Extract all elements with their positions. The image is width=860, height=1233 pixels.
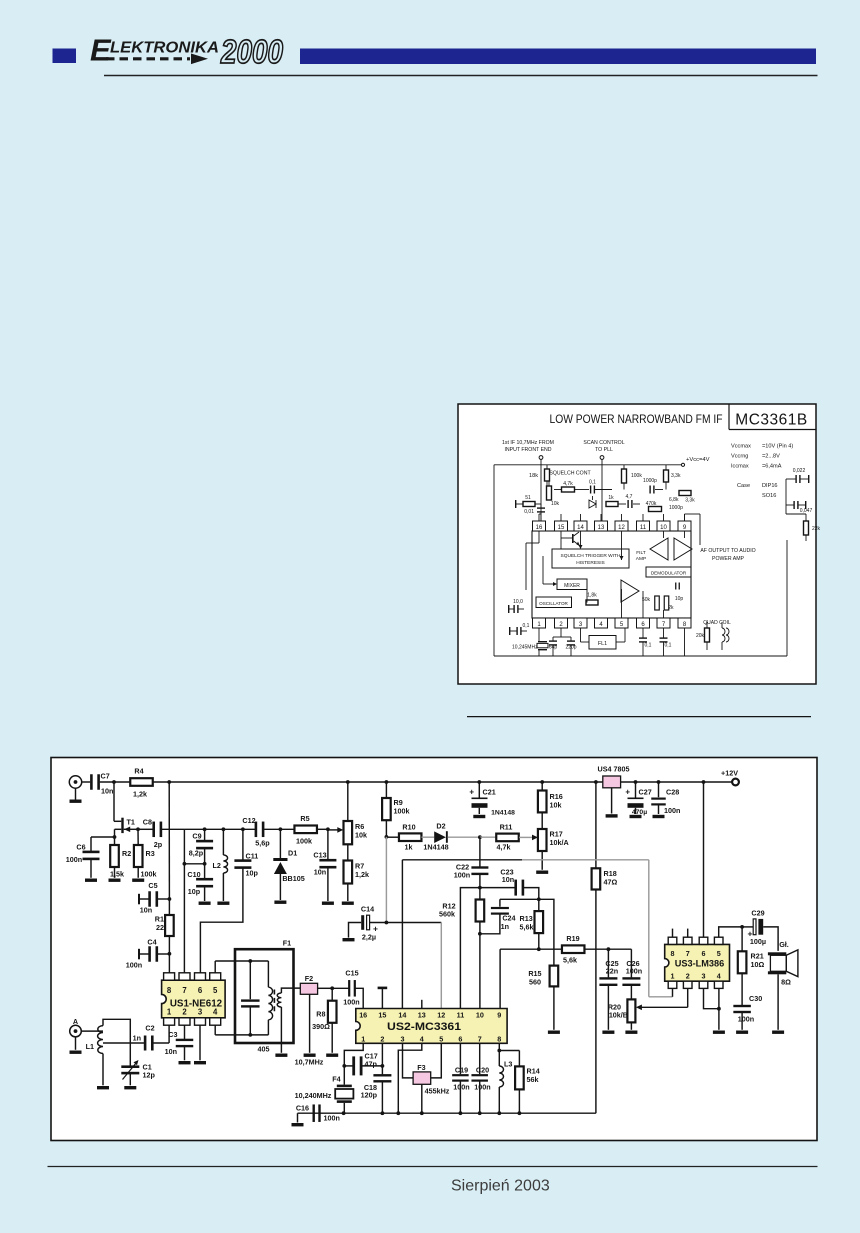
- svg-text:C6: C6: [76, 843, 85, 852]
- squelch input transistor: [561, 537, 572, 539]
- svg-text:5: 5: [213, 986, 218, 995]
- input wire down to pin16: [540, 459, 542, 521]
- IC US3-LM386: [665, 944, 730, 981]
- header rule: [104, 75, 818, 77]
- resistor 3,3k: [664, 470, 669, 482]
- US1 pin boxes bottom: [164, 1018, 175, 1025]
- svg-text:C10: C10: [187, 870, 200, 879]
- svg-text:+: +: [469, 788, 474, 797]
- svg-text:2: 2: [686, 972, 690, 981]
- ground of D1: [274, 901, 286, 904]
- bottom common rail: [298, 1112, 596, 1114]
- ground of C1: [124, 1086, 136, 1089]
- svg-text:C14: C14: [361, 905, 374, 914]
- US2 pin4 ground jog: [398, 1043, 422, 1113]
- wire R16 to R17: [541, 812, 543, 829]
- svg-text:6: 6: [458, 1034, 462, 1043]
- header left navy block: [53, 49, 77, 64]
- svg-text:10,240MHz: 10,240MHz: [295, 1091, 332, 1100]
- svg-text:C27: C27: [639, 788, 652, 797]
- ground of C6: [85, 879, 97, 882]
- svg-text:SCAN CONTROL: SCAN CONTROL: [583, 440, 624, 446]
- capacitor C4 100n with stub: [138, 949, 140, 960]
- capacitor C26 100n: [630, 949, 632, 977]
- wire C7 to R4: [100, 781, 130, 783]
- US1 pin5 wire into F1: [214, 961, 216, 973]
- pins 1-4 bottom stubs: [538, 628, 540, 637]
- capacitor C27 470u electrolytic: [635, 782, 637, 798]
- wire C29 to speaker: [763, 927, 778, 951]
- wire C4 to pin8 line node: [158, 953, 170, 955]
- svg-text:DEMODULATOR: DEMODULATOR: [651, 571, 687, 576]
- svg-text:3: 3: [702, 972, 706, 981]
- svg-text:100n: 100n: [453, 1083, 469, 1092]
- vertical from +V node down to R1: [168, 782, 170, 899]
- svg-text:C28: C28: [666, 788, 679, 797]
- svg-text:5: 5: [439, 1034, 443, 1043]
- capacitor C28 100n: [658, 782, 660, 797]
- wire R5 to R6 wiper node: [317, 828, 328, 830]
- left border wire down: [493, 465, 495, 656]
- resistor R8 390ohm: [331, 988, 333, 1000]
- capacitor C25 22n: [607, 949, 609, 977]
- ground of C3: [179, 1061, 191, 1064]
- svg-text:6,8k: 6,8k: [669, 497, 679, 503]
- F1 secondary to ground: [280, 1007, 282, 1053]
- svg-text:3: 3: [198, 1008, 203, 1017]
- ground of C27: [630, 815, 642, 818]
- svg-text:Iccmax: Iccmax: [731, 464, 749, 470]
- svg-text:US3-LM386: US3-LM386: [675, 958, 725, 968]
- svg-text:10k/A: 10k/A: [550, 838, 569, 847]
- svg-text:1N4148: 1N4148: [491, 810, 515, 817]
- wire C8 to RF row: [162, 828, 185, 830]
- resistor 22k: [804, 521, 809, 535]
- svg-text:C29: C29: [751, 909, 764, 918]
- ground of R3: [137, 867, 139, 878]
- pins 5 6 7 wires inner: [621, 589, 623, 618]
- svg-text:22k: 22k: [812, 526, 821, 532]
- RF row wire to C12: [184, 828, 255, 830]
- svg-text:1,8k: 1,8k: [587, 593, 597, 599]
- svg-text:22n: 22n: [606, 966, 618, 975]
- wire C22 node to US2 pin11: [460, 888, 480, 1009]
- svg-text:56k: 56k: [527, 1075, 539, 1084]
- svg-text:1,5k: 1,5k: [110, 870, 124, 879]
- transistor T1: [121, 818, 123, 833]
- resistor R11 4,7k: [496, 834, 519, 842]
- svg-text:BB105: BB105: [282, 874, 304, 883]
- svg-text:R19: R19: [566, 934, 579, 943]
- svg-text:1,2k: 1,2k: [133, 790, 147, 799]
- svg-text:100n: 100n: [738, 1015, 754, 1024]
- svg-text:C7: C7: [101, 772, 110, 781]
- crystal F4 10,240MHz: [337, 1085, 352, 1088]
- svg-text:10p: 10p: [675, 596, 684, 602]
- resistor R14 56k: [518, 1051, 520, 1067]
- capacitor C11 10p: [242, 829, 244, 861]
- US2 pin2 wire and C18: [381, 1043, 383, 1074]
- cap 0,01: [537, 507, 545, 508]
- main schematic frame: [51, 758, 817, 1141]
- svg-text:10k: 10k: [551, 501, 560, 507]
- wire T1 gate down to R2: [114, 829, 116, 845]
- speaker ground: [777, 974, 779, 1030]
- oscillator block: [536, 597, 572, 608]
- antenna input connector J1: [69, 776, 81, 788]
- svg-text:1N4148: 1N4148: [423, 843, 448, 852]
- svg-text:C15: C15: [345, 969, 358, 978]
- ground of C21: [473, 815, 485, 818]
- resistor R10 1k: [386, 836, 398, 838]
- inductor L3: [498, 1051, 500, 1067]
- wire R19 to volume node: [585, 948, 632, 950]
- US3 pin1 wire: [672, 988, 674, 996]
- C16 ground stub: [297, 1113, 299, 1122]
- svg-text:C5: C5: [148, 881, 157, 890]
- svg-text:100k: 100k: [394, 807, 410, 816]
- svg-text:C2: C2: [145, 1024, 154, 1033]
- svg-text:TO PLL: TO PLL: [595, 447, 613, 453]
- demodulator block: [646, 567, 691, 577]
- resistor R5 100k: [294, 826, 317, 834]
- svg-text:1n: 1n: [501, 922, 509, 931]
- ground of C25: [602, 1031, 614, 1034]
- resistor R7 1,2k: [344, 861, 353, 884]
- svg-text:R11: R11: [500, 823, 513, 832]
- svg-text:6: 6: [198, 986, 203, 995]
- svg-text:12: 12: [618, 525, 625, 531]
- svg-text:470k: 470k: [646, 501, 657, 507]
- inductor L2: [222, 829, 224, 855]
- ground of L2: [217, 902, 229, 905]
- resistor R3 100k: [134, 845, 143, 867]
- svg-text:7: 7: [478, 1034, 482, 1043]
- input terminal: [539, 456, 543, 460]
- resistor R2 1,5k: [110, 845, 119, 867]
- svg-text:6: 6: [702, 949, 706, 958]
- svg-text:4: 4: [717, 972, 721, 981]
- svg-text:10n: 10n: [101, 787, 113, 796]
- svg-text:1: 1: [361, 1034, 365, 1043]
- resistor R12 560k: [479, 888, 481, 900]
- F1 transformer secondary: [277, 993, 281, 1007]
- svg-text:11: 11: [640, 525, 647, 531]
- svg-text:Gł.: Gł.: [779, 940, 789, 949]
- svg-text:T1: T1: [127, 818, 135, 827]
- svg-text:R3: R3: [146, 849, 155, 858]
- svg-text:100µ: 100µ: [750, 937, 766, 946]
- svg-text:100n: 100n: [664, 806, 680, 815]
- capacitor C29 100u electrolytic: [742, 926, 753, 928]
- svg-text:2p: 2p: [154, 840, 163, 849]
- wire C11 to US1 pin6: [200, 867, 243, 973]
- svg-text:15: 15: [558, 525, 565, 531]
- svg-text:10: 10: [660, 525, 667, 531]
- svg-text:47Ω: 47Ω: [604, 878, 618, 887]
- svg-text:L2: L2: [213, 861, 221, 870]
- footer rule: [48, 1166, 818, 1168]
- svg-text:US4 7805: US4 7805: [598, 765, 630, 774]
- ground of L1: [102, 1054, 104, 1086]
- svg-text:C20: C20: [476, 1065, 489, 1074]
- cap 10p inner: [675, 583, 676, 590]
- resistor 3,3k second: [679, 491, 691, 496]
- svg-text:C12: C12: [242, 816, 255, 825]
- svg-text:11: 11: [457, 1010, 465, 1019]
- svg-text:5,6k: 5,6k: [563, 956, 577, 965]
- svg-text:390Ω: 390Ω: [312, 1022, 330, 1031]
- svg-text:AF OUTPUT TO AUDIO: AF OUTPUT TO AUDIO: [700, 548, 755, 554]
- svg-text:1: 1: [167, 1008, 172, 1017]
- svg-text:Vccrng: Vccrng: [731, 454, 748, 460]
- svg-text:10k/B: 10k/B: [609, 1011, 628, 1020]
- svg-text:D2: D2: [436, 822, 445, 831]
- wire R4 to +V rail with node: [153, 781, 169, 783]
- svg-text:14: 14: [577, 525, 584, 531]
- svg-text:R10: R10: [402, 823, 415, 832]
- wire F2 to node: [318, 987, 333, 989]
- svg-text:4,7: 4,7: [626, 494, 633, 500]
- svg-text:120p: 120p: [361, 1091, 378, 1100]
- svg-text:SO16: SO16: [762, 493, 776, 499]
- grey wire D2 to R11 node: [448, 836, 480, 838]
- tank output wire: [103, 1042, 144, 1044]
- FL1 block: [589, 636, 616, 650]
- potentiometer R20 10k/B: [627, 999, 635, 1022]
- svg-text:100k: 100k: [296, 837, 312, 846]
- svg-text:F2: F2: [305, 974, 313, 983]
- F1 inner capacitor: [248, 959, 252, 963]
- varicap diode D1 BB105: [279, 829, 281, 858]
- wire J1 to C7: [82, 781, 90, 783]
- svg-text:15: 15: [378, 1010, 386, 1019]
- resistor 1,8k inner: [586, 600, 598, 605]
- pin9 wire af out: [684, 514, 686, 521]
- svg-text:9: 9: [497, 1010, 501, 1019]
- datasheet inset frame: [458, 404, 816, 684]
- svg-text:10p: 10p: [246, 869, 259, 878]
- US3 pin7 stub: [687, 929, 689, 938]
- node C9 C10: [204, 848, 206, 864]
- svg-text:FL1: FL1: [598, 641, 607, 647]
- svg-text:E: E: [90, 33, 112, 68]
- svg-text:=2...8V: =2...8V: [762, 454, 780, 460]
- grey wire R10 to D2: [422, 836, 435, 838]
- separator line under datasheet: [467, 716, 811, 718]
- capacitor C6 100n: [90, 837, 92, 851]
- svg-text:100k: 100k: [141, 870, 157, 879]
- cap 4,7: [627, 500, 628, 508]
- US3 pin3 wire to pin4: [704, 988, 719, 1008]
- cap 1000p: [649, 486, 650, 494]
- capacitor C23 10n: [480, 887, 515, 889]
- svg-text:MC3361B: MC3361B: [735, 412, 807, 429]
- wire pin14 vertical: [401, 860, 403, 1009]
- potentiometer R6 10k: [344, 821, 353, 844]
- cap 0,1: [590, 486, 591, 494]
- US1 pin3 ground: [199, 1025, 201, 1060]
- inductor L1: [98, 1026, 103, 1054]
- svg-text:1k: 1k: [608, 495, 614, 501]
- capacitor C3 10n: [184, 1025, 186, 1040]
- svg-text:F4: F4: [332, 1075, 340, 1084]
- svg-text:0,1: 0,1: [523, 623, 530, 629]
- svg-text:1000p: 1000p: [669, 505, 683, 511]
- svg-text:2: 2: [182, 1008, 187, 1017]
- svg-text:100n: 100n: [343, 998, 359, 1007]
- header right navy bar: [300, 49, 816, 65]
- svg-text:L3: L3: [504, 1060, 512, 1069]
- capacitor C24 1n: [499, 899, 501, 906]
- squelch trigger block: [552, 549, 629, 568]
- svg-text:INPUT FRONT END: INPUT FRONT END: [504, 447, 551, 453]
- capacitor C9 8,2p: [204, 829, 206, 841]
- node T1 source to R3 and C8: [138, 828, 153, 830]
- datasheet IC outline: [532, 531, 691, 618]
- IC US1-NE612: [162, 980, 226, 1018]
- inner resistor b: [664, 596, 669, 610]
- svg-text:7: 7: [182, 986, 186, 995]
- US3 pin5 wire to C29: [719, 927, 742, 937]
- svg-text:12p: 12p: [143, 1071, 156, 1080]
- US3 pin4 ground: [718, 988, 720, 1029]
- node R9 R10: [385, 820, 387, 837]
- svg-text:10: 10: [476, 1010, 484, 1019]
- svg-text:100n: 100n: [474, 1083, 490, 1092]
- svg-text:+: +: [625, 788, 630, 797]
- svg-text:7: 7: [686, 949, 690, 958]
- capacitor C16 100n: [313, 1104, 315, 1122]
- svg-text:18k: 18k: [529, 473, 538, 479]
- svg-text:C4: C4: [147, 938, 156, 947]
- ground of C13: [322, 902, 334, 905]
- resistor 18k: [545, 469, 550, 481]
- svg-text:R4: R4: [134, 767, 143, 776]
- US2 pin13 stub: [421, 1000, 423, 1009]
- ground of C10: [199, 902, 211, 905]
- svg-text:10n: 10n: [502, 875, 514, 884]
- US3 pin8 stub: [672, 929, 674, 938]
- resistor R9 100k: [385, 782, 387, 798]
- filter F1 box: [235, 949, 294, 1043]
- wire C23 to R13 node: [524, 888, 539, 900]
- F2 ground lead: [309, 994, 311, 1053]
- svg-text:C19: C19: [455, 1065, 468, 1074]
- svg-text:C16: C16: [296, 1104, 309, 1113]
- US2 pin8 node: [498, 1043, 500, 1050]
- grey wire R11 to R17 wiper arrow: [519, 836, 532, 838]
- svg-text:+12V: +12V: [721, 769, 738, 778]
- capacitor C13 10n: [327, 829, 329, 860]
- resistor R1 22: [168, 899, 170, 915]
- US2 pin6 wire and C19: [459, 1043, 461, 1074]
- svg-text:10Ω: 10Ω: [751, 960, 765, 969]
- US2 pin5 wire to F3: [431, 1043, 442, 1078]
- ground of C30: [736, 1031, 748, 1034]
- svg-text:13: 13: [418, 1010, 426, 1019]
- grey squelch wire to US3 pin1: [522, 859, 649, 861]
- antenna connector A: [70, 1025, 82, 1037]
- svg-text:405: 405: [258, 1045, 270, 1054]
- pin12 inner wire arrow: [621, 531, 623, 560]
- resistor 470k: [649, 507, 662, 512]
- logo dashed arrow: [106, 57, 190, 60]
- trimmer capacitor C1 12p: [121, 1065, 139, 1068]
- US3 pin2 wire to R20 wiper: [687, 988, 689, 1007]
- capacitor C12 5,6p: [255, 822, 258, 838]
- wire L1 top to C1: [103, 1019, 130, 1066]
- datasheet bottom rail: [494, 655, 787, 657]
- US2 pin3 wire to F3: [403, 1043, 414, 1078]
- svg-text:OSCILLATOR: OSCILLATOR: [539, 601, 568, 606]
- svg-text:LEKTRONIKA: LEKTRONIKA: [110, 40, 219, 57]
- svg-text:C8: C8: [143, 818, 152, 827]
- wire node to C6: [91, 836, 115, 838]
- svg-text:SQUELCH TRIGGER WITH: SQUELCH TRIGGER WITH: [561, 553, 621, 559]
- svg-text:100k: 100k: [631, 473, 642, 479]
- svg-text:2: 2: [380, 1034, 384, 1043]
- capacitor C5 10n with stub: [138, 894, 140, 905]
- +12V rail right of regulator: [621, 781, 732, 783]
- svg-text:1st IF 10,7MHz FROM: 1st IF 10,7MHz FROM: [502, 440, 554, 446]
- wire C14 to US2 pin12: [370, 922, 441, 924]
- capacitor C2 1n: [144, 1036, 147, 1051]
- US3 pin6 supply wire: [703, 782, 705, 937]
- svg-text:2,2µ: 2,2µ: [362, 933, 376, 942]
- resistor R15 560: [550, 966, 559, 987]
- svg-text:C30: C30: [749, 994, 762, 1003]
- svg-text:8: 8: [167, 986, 172, 995]
- resistor R21 10ohm: [741, 927, 743, 951]
- svg-text:4: 4: [213, 1008, 218, 1017]
- svg-text:16: 16: [359, 1010, 367, 1019]
- +12V terminal: [732, 779, 739, 786]
- svg-text:DIP16: DIP16: [762, 483, 778, 489]
- svg-text:10k: 10k: [355, 831, 367, 840]
- MC3361B title box: [728, 404, 730, 430]
- svg-text:10n: 10n: [314, 868, 326, 877]
- svg-text:SQUELCH CONT: SQUELCH CONT: [549, 471, 591, 477]
- wiper arrow into potentiometer R6: [328, 829, 338, 831]
- US1 pin boxes top: [164, 973, 175, 980]
- wire rail to R6 top: [347, 782, 349, 821]
- resistor R4 1,2k: [130, 778, 153, 786]
- scan wire down to pin13: [601, 459, 603, 521]
- wire A to L1 tap: [81, 1030, 103, 1032]
- capacitor C14 2,2u electrolytic: [349, 923, 362, 938]
- svg-text:C3: C3: [168, 1030, 177, 1039]
- svg-text:10p: 10p: [188, 887, 201, 896]
- resistor R13 5,6k: [538, 899, 540, 911]
- svg-text:F1: F1: [283, 939, 291, 948]
- Vcc rail: [494, 464, 682, 466]
- svg-text:3,3k: 3,3k: [685, 498, 695, 504]
- ground of C14: [343, 938, 355, 941]
- svg-text:Case: Case: [737, 483, 750, 489]
- resistor 4,7k: [562, 487, 575, 492]
- svg-text:POWER AMP: POWER AMP: [712, 556, 745, 562]
- capacitor C30 100n: [741, 973, 743, 1005]
- svg-text:3: 3: [401, 1034, 405, 1043]
- F1 transformer primary: [267, 961, 269, 987]
- svg-text:LOW POWER NARROWBAND FM IF: LOW POWER NARROWBAND FM IF: [550, 412, 723, 426]
- datasheet pin boxes top: [533, 521, 546, 531]
- svg-text:455kHz: 455kHz: [425, 1087, 450, 1096]
- svg-text:13: 13: [598, 525, 605, 531]
- potentiometer R17 10k/A: [538, 829, 547, 851]
- svg-text:A: A: [73, 1017, 78, 1026]
